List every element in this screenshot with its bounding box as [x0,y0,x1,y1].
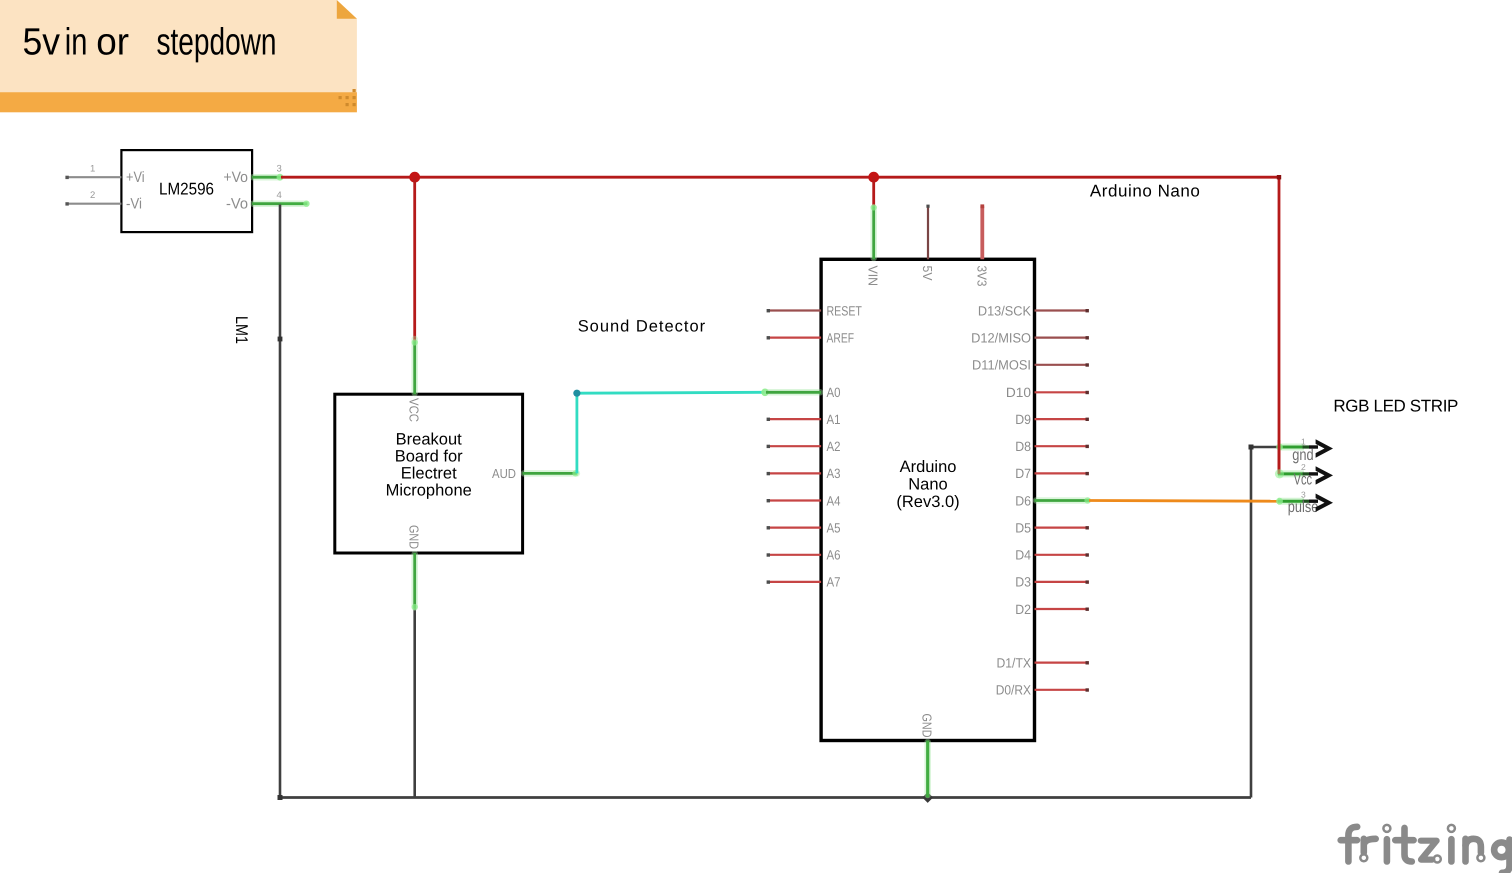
pin A5 [767,520,841,535]
svg-text:-Vi: -Vi [126,196,142,213]
svg-text:+Vo: +Vo [223,169,248,186]
pin D12/MISO [971,330,1089,345]
svg-text:pulse: pulse [1288,499,1319,516]
wire red down to RGB Vcc [1278,177,1281,474]
pin D3 [1015,575,1089,590]
svg-text:VCC: VCC [407,398,422,422]
svg-text:Sound Detector: Sound Detector [578,317,706,335]
svg-text:A0: A0 [827,385,841,400]
RGB strip pin 3 pulse [1276,489,1333,516]
svg-text:D2: D2 [1015,602,1031,617]
svg-text:LM1: LM1 [232,316,251,344]
pin D6 [1015,493,1090,508]
wire black up to RGB gnd [1250,447,1253,798]
svg-text:Nano: Nano [908,476,947,494]
svg-text:D3: D3 [1015,575,1031,590]
svg-text:GND: GND [407,525,422,549]
pin D13/SCK [978,303,1089,318]
pin 1 +Vi [65,164,121,180]
wire cyan AUD to A0 [573,389,768,474]
svg-text:Arduino Nano: Arduino Nano [1090,182,1200,201]
pin 3V3 [974,204,989,286]
RGB strip pin 2 Vcc [1278,462,1333,489]
svg-text:D11/MOSI: D11/MOSI [972,358,1031,373]
z [1421,841,1437,860]
pin A2 [767,439,841,454]
wire black to gnd pin [1251,446,1278,449]
node junction ground [922,792,933,803]
fritzing watermark [1341,825,1510,873]
pin D4 [1015,548,1089,563]
note "5v in or stepdown" [0,0,357,112]
pin GND bottom [920,714,935,798]
svg-text:4: 4 [277,190,282,201]
svg-text:D10: D10 [1006,385,1031,400]
svg-text:stepdown: stepdown [157,22,277,64]
pin AREF [767,330,854,345]
svg-text:5v: 5v [23,22,61,64]
svg-text:D12/MISO: D12/MISO [971,330,1031,345]
svg-text:A4: A4 [827,493,841,508]
svg-text:GND: GND [920,714,935,738]
svg-text:2: 2 [90,190,95,201]
wire red to arduino VIN [872,177,875,206]
svg-text:2: 2 [1301,462,1306,472]
pin D10 [1006,385,1089,400]
wire red 5V bus top [281,176,1279,179]
svg-text:D8: D8 [1015,439,1031,454]
svg-text:+Vi: +Vi [126,169,145,186]
wire black ground bus bottom [280,796,1251,799]
wire green from -Vo [281,201,310,207]
pin D11/MOSI [972,358,1089,373]
svg-text:3V3: 3V3 [974,266,989,287]
pin D5 [1015,520,1089,535]
pin D1/TX [997,655,1089,670]
pin D7 [1015,466,1089,481]
svg-text:(Rev3.0): (Rev3.0) [896,493,959,511]
svg-text:A6: A6 [827,548,841,563]
pin A3 [767,466,841,481]
t [1405,828,1412,862]
svg-text:A5: A5 [827,520,841,535]
svg-text:Microphone: Microphone [386,482,472,500]
pin D2 [1015,602,1089,617]
svg-text:A1: A1 [827,412,841,427]
i [1448,839,1455,861]
pin D9 [1015,412,1089,427]
svg-text:Vcc: Vcc [1294,472,1313,489]
r [1361,839,1368,853]
svg-text:D13/SCK: D13/SCK [978,303,1031,318]
pin D0/RX [996,683,1089,698]
g [1494,842,1509,857]
svg-text:-Vo: -Vo [226,196,248,213]
svg-text:AREF: AREF [827,330,855,345]
pin 2 -Vi [65,190,121,206]
pin RESET [767,303,862,318]
pin A4 [767,493,841,508]
pin 5V [920,205,935,281]
LM2596 step-down module LM1 [121,150,252,232]
wire red to mic VCC [413,177,416,341]
svg-text:D5: D5 [1015,520,1031,535]
svg-text:RGB LED STRIP: RGB LED STRIP [1333,397,1458,416]
svg-text:D1/TX: D1/TX [997,655,1032,670]
svg-text:5V: 5V [920,266,935,281]
svg-text:Breakout: Breakout [396,430,462,448]
pin A1 [767,412,841,427]
svg-text:D6: D6 [1015,493,1031,508]
svg-text:Arduino: Arduino [900,458,957,476]
svg-text:RESET: RESET [827,303,862,318]
svg-text:1: 1 [1301,437,1306,447]
wire black from -Vo down [279,205,282,798]
wire orange D6 to pulse [1089,499,1278,503]
mic pin AUD [492,466,579,481]
svg-text:LM2596: LM2596 [159,180,214,199]
pin A0 [766,385,841,400]
wire red overlay down to RGB Vcc pin [1275,440,1284,479]
svg-text:1: 1 [90,164,95,175]
mic pin GND [407,525,422,610]
node bend [1249,445,1254,450]
pin A7 [767,575,841,590]
svg-text:A3: A3 [827,466,841,481]
pin A6 [767,548,841,563]
svg-text:or: or [96,22,129,64]
svg-text:3: 3 [277,164,282,175]
i [1384,839,1391,861]
svg-text:in: in [65,22,88,64]
svg-text:D7: D7 [1015,466,1031,481]
node bend at bus corner [1277,175,1281,179]
pin 3 +Vo [252,164,283,181]
svg-text:D4: D4 [1015,548,1031,563]
wire black from mic GND down [413,609,416,798]
svg-text:A7: A7 [827,575,841,590]
svg-text:Electret: Electret [401,465,457,483]
mic breakout board box [335,394,523,553]
RGB strip pin 1 gnd [1276,437,1333,464]
svg-text:Board for: Board for [395,448,463,466]
mic pin VCC [407,339,422,422]
pin 4 -Vo [252,190,306,204]
svg-text:A2: A2 [827,439,841,454]
svg-text:3: 3 [1301,489,1306,499]
svg-text:VIN: VIN [866,266,881,287]
f [1348,827,1357,862]
pin D8 [1015,439,1089,454]
node junction J2 [868,172,879,183]
svg-text:D0/RX: D0/RX [996,683,1031,698]
svg-text:AUD: AUD [492,466,516,481]
n [1462,839,1469,862]
node bend [278,337,283,342]
node junction J1 [409,172,420,183]
Arduino Nano box [821,259,1034,740]
pin VIN [866,204,881,286]
svg-text:D9: D9 [1015,412,1031,427]
